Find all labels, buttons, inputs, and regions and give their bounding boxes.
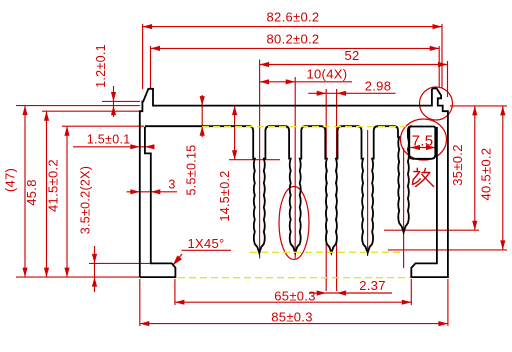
svg-text:2.37: 2.37 — [359, 278, 386, 293]
svg-text:1.2±0.1: 1.2±0.1 — [94, 44, 108, 88]
svg-text:3: 3 — [168, 177, 175, 191]
svg-text:82.6±0.2: 82.6±0.2 — [267, 10, 320, 25]
svg-text:85±0.3: 85±0.3 — [271, 310, 312, 325]
svg-text:1X45°: 1X45° — [187, 236, 224, 251]
svg-text:52: 52 — [344, 48, 359, 63]
svg-text:80.2±0.2: 80.2±0.2 — [267, 32, 320, 47]
svg-text:41.5±0.2: 41.5±0.2 — [46, 159, 61, 212]
svg-text:2.98: 2.98 — [365, 78, 392, 93]
svg-text:65±0.3: 65±0.3 — [274, 288, 315, 303]
svg-text:10(4X): 10(4X) — [307, 67, 348, 82]
svg-text:5.5±0.15: 5.5±0.15 — [185, 145, 199, 196]
svg-text:40.5±0.2: 40.5±0.2 — [479, 148, 494, 201]
svg-text:3.5±0.2(2X): 3.5±0.2(2X) — [79, 166, 93, 235]
svg-text:7.5: 7.5 — [412, 132, 434, 149]
svg-text:35±0.2: 35±0.2 — [450, 144, 465, 185]
svg-text:(47): (47) — [3, 168, 18, 192]
svg-text:1.5±0.1: 1.5±0.1 — [87, 133, 131, 147]
svg-text:14.5±0.2: 14.5±0.2 — [218, 171, 232, 222]
svg-text:45.8: 45.8 — [24, 179, 39, 206]
